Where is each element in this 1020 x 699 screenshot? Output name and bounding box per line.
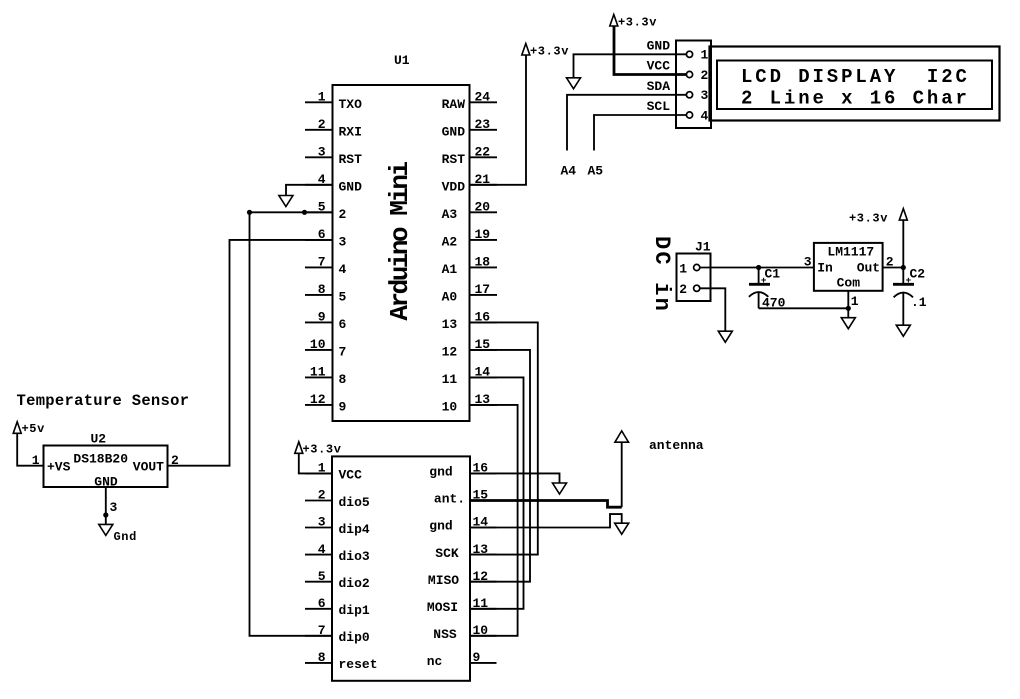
svg-text:8: 8 — [318, 650, 326, 665]
U1 pin 18 (A1) right stub — [442, 255, 497, 278]
svg-text:VDD: VDD — [442, 180, 466, 195]
IC U1 Arduino Mini body — [333, 53, 470, 421]
svg-text:RXI: RXI — [339, 125, 362, 140]
svg-text:12: 12 — [442, 345, 458, 360]
U1 pin 22 (RST) right stub — [442, 145, 497, 168]
svg-text:6: 6 — [318, 596, 326, 611]
svg-text:A3: A3 — [442, 207, 458, 222]
svg-text:dio2: dio2 — [339, 576, 370, 591]
svg-text:TXO: TXO — [339, 97, 363, 112]
U1 pin 24 (RAW) right stub — [442, 90, 497, 113]
svg-text:19: 19 — [475, 227, 491, 242]
svg-text:+3.3v: +3.3v — [849, 212, 888, 226]
wire +5v to U2 pin1 — [17, 433, 43, 465]
wire LM1117 Com to ground — [841, 291, 855, 329]
radio pin 8 (reset) left stub — [305, 650, 378, 672]
wire J1 pin2 to ground — [700, 288, 733, 342]
svg-text:nc: nc — [427, 654, 443, 669]
connector J1 body — [677, 240, 711, 301]
svg-text:SDA: SDA — [647, 79, 671, 94]
svg-text:12: 12 — [310, 392, 326, 407]
J1 pin 1 — [679, 261, 700, 276]
U1 pin 12 (9) left stub — [305, 392, 347, 415]
ground symbol Gnd under U2 — [99, 524, 137, 544]
svg-text:2: 2 — [318, 117, 326, 132]
wire LM1117 Out to +3.3v node — [883, 267, 904, 269]
svg-text:DS18B20: DS18B20 — [73, 451, 128, 466]
U1 pin 9 (6) left stub — [305, 310, 347, 333]
radio module body — [332, 456, 470, 680]
U1 pin 4 (GND) left stub — [305, 172, 362, 195]
radio pin 7 (dip0) left stub — [305, 623, 370, 645]
radio pin 5 (dio2) left stub — [305, 569, 370, 591]
svg-text:7: 7 — [318, 623, 326, 638]
svg-text:+3.3v: +3.3v — [303, 442, 342, 456]
radio pin 3 (dip4) left stub — [305, 515, 370, 537]
svg-text:RST: RST — [442, 152, 466, 167]
svg-text:C1: C1 — [765, 267, 781, 282]
wire U1 pin5(2) to radio dip0 — [250, 212, 333, 636]
radio pin 11 (MOSI) right stub — [427, 596, 497, 615]
wire C1 bottom to Com node — [759, 307, 849, 309]
U1 pin 11 (8) left stub — [305, 365, 347, 388]
wire radio SCK pin13 to U1 pin16 — [470, 322, 538, 554]
junction dot on U2 pin3 — [103, 512, 108, 517]
svg-text:5: 5 — [318, 569, 326, 584]
svg-text:18: 18 — [475, 255, 491, 270]
power +5v — [13, 422, 45, 436]
svg-text:+3.3v: +3.3v — [530, 45, 569, 59]
radio pin 9 (nc) right stub — [427, 650, 497, 669]
svg-text:5: 5 — [339, 290, 347, 305]
svg-text:A0: A0 — [442, 290, 458, 305]
radio pin 2 (dio5) left stub — [305, 488, 370, 510]
U1 pin 2 (RXI) left stub — [305, 117, 362, 140]
power +3.3v at radio VCC — [295, 442, 342, 457]
svg-text:dip4: dip4 — [339, 522, 370, 537]
connector pin 4 (SCL) — [647, 99, 709, 123]
svg-text:8: 8 — [318, 282, 326, 297]
svg-text:10: 10 — [310, 337, 326, 352]
U1 pin 21 (VDD) right stub — [442, 172, 497, 195]
svg-text:GND: GND — [442, 125, 466, 140]
wire SCL pin4 to A5 — [588, 115, 687, 178]
svg-text:A4: A4 — [561, 163, 577, 178]
U1 pin 17 (A0) right stub — [442, 282, 497, 305]
radio pin 15 (ant.) right stub — [434, 488, 497, 507]
svg-text:2: 2 — [318, 488, 326, 503]
wire radio MISO pin12 to U1 pin15 — [470, 350, 531, 582]
svg-text:2: 2 — [701, 68, 709, 83]
svg-text:VCC: VCC — [647, 59, 671, 74]
svg-text:2: 2 — [339, 207, 347, 222]
svg-text:3: 3 — [318, 145, 326, 160]
svg-text:dip1: dip1 — [339, 603, 370, 618]
wire +3.3v to radio VCC pin1 — [299, 453, 332, 473]
U1 pin 8 (5) left stub — [305, 282, 347, 305]
svg-text:SCK: SCK — [435, 546, 459, 561]
wire radio ant pin15 to antenna — [470, 442, 622, 507]
svg-text:DC in: DC in — [649, 236, 674, 313]
U1 pin 20 (A3) right stub — [442, 200, 497, 223]
svg-text:3: 3 — [339, 235, 347, 250]
svg-text:A1: A1 — [442, 262, 458, 277]
svg-text:LCD DISPLAY I2C: LCD DISPLAY I2C — [741, 66, 970, 88]
regulator LM1117 body — [814, 243, 883, 291]
U1 pin 19 (A2) right stub — [442, 227, 497, 250]
wire radio gnd pin14 to ground — [470, 514, 629, 534]
power +3.3v at regulator output — [849, 209, 907, 268]
svg-text:Arduino Mini: Arduino Mini — [385, 161, 415, 320]
svg-text:A2: A2 — [442, 235, 458, 250]
wire U1 VDD pin21 to +3.3v — [470, 55, 527, 185]
ground symbol under C2 — [896, 325, 910, 336]
svg-text:1: 1 — [32, 453, 40, 468]
antenna symbol — [615, 431, 704, 453]
svg-text:dio3: dio3 — [339, 549, 370, 564]
svg-text:dio5: dio5 — [339, 495, 370, 510]
svg-text:11: 11 — [310, 365, 326, 380]
U1 pin 16 (13) right stub — [442, 310, 497, 333]
svg-text:3: 3 — [701, 88, 709, 103]
svg-text:Temperature Sensor: Temperature Sensor — [17, 392, 190, 410]
svg-text:1: 1 — [851, 294, 859, 309]
svg-text:J1: J1 — [695, 240, 711, 255]
svg-text:ant.: ant. — [434, 492, 465, 507]
svg-text:+VS: +VS — [47, 460, 71, 475]
radio pin 16 (gnd) right stub — [429, 461, 496, 480]
junction dot at Out node — [901, 265, 906, 270]
svg-text:13: 13 — [442, 317, 458, 332]
connector body — [676, 41, 711, 129]
svg-text:+5v: +5v — [22, 422, 45, 436]
U1 pin 13 (10) right stub — [442, 392, 497, 415]
radio pin 4 (dio3) left stub — [305, 542, 370, 564]
wire radio NSS pin10 to U1 pin13 — [470, 405, 518, 636]
svg-text:3: 3 — [318, 515, 326, 530]
svg-text:MISO: MISO — [428, 573, 459, 588]
svg-text:22: 22 — [475, 145, 491, 160]
junction dot on pin5 wire near pin — [302, 210, 307, 215]
radio pin 12 (MISO) right stub — [428, 569, 497, 588]
svg-text:2: 2 — [679, 282, 687, 297]
U1 pin 7 (4) left stub — [305, 255, 347, 278]
svg-text:9: 9 — [318, 310, 326, 325]
svg-text:NSS: NSS — [433, 627, 457, 642]
LCD display inner box — [717, 61, 992, 110]
svg-text:1: 1 — [679, 261, 687, 276]
svg-text:1: 1 — [318, 90, 326, 105]
svg-text:7: 7 — [339, 345, 347, 360]
svg-text:LM1117: LM1117 — [827, 244, 874, 259]
U1 pin 14 (11) right stub — [442, 365, 497, 388]
capacitor C2 (polarized, .1) — [893, 267, 927, 326]
U1 pin 6 (3) left stub — [305, 227, 347, 250]
svg-text:dip0: dip0 — [339, 630, 370, 645]
wire GND pin1 to ground — [567, 54, 687, 89]
svg-text:3: 3 — [804, 255, 812, 270]
svg-text:antenna: antenna — [649, 438, 704, 453]
svg-text:VCC: VCC — [339, 468, 363, 483]
svg-text:23: 23 — [475, 117, 491, 132]
LCD display outer box — [710, 47, 1000, 121]
power +3.3v at LCD — [610, 15, 657, 30]
sensor U2 DS18B20 body — [44, 431, 168, 489]
svg-text:11: 11 — [442, 372, 458, 387]
U1 pin 1 (TXO) left stub — [305, 90, 362, 113]
wire U1 pin6(3) to sensor VOUT — [168, 240, 333, 466]
svg-text:4: 4 — [339, 262, 347, 277]
svg-text:2 Line x 16 Char: 2 Line x 16 Char — [741, 87, 970, 109]
svg-text:RAW: RAW — [442, 97, 466, 112]
svg-text:9: 9 — [473, 650, 481, 665]
svg-text:20: 20 — [475, 200, 491, 215]
svg-text:Out: Out — [857, 261, 880, 276]
wire VCC pin2 to +3.3v — [614, 26, 686, 75]
svg-text:In: In — [817, 261, 833, 276]
radio pin 1 (VCC) left stub — [305, 461, 362, 483]
junction dot at Com node — [846, 306, 851, 311]
svg-text:1: 1 — [701, 48, 709, 63]
svg-text:3: 3 — [110, 500, 118, 515]
svg-text:U2: U2 — [91, 431, 107, 446]
wire radio gnd pin16 to ground — [470, 473, 567, 494]
svg-text:GND: GND — [647, 39, 671, 54]
wire SDA pin3 to A4 — [561, 95, 687, 179]
svg-text:+: + — [906, 275, 912, 286]
U1 pin 3 (RST) left stub — [305, 145, 362, 168]
svg-text:+3.3v: +3.3v — [618, 15, 657, 29]
radio pin 10 (NSS) right stub — [433, 623, 496, 642]
svg-text:.1: .1 — [911, 295, 927, 310]
svg-text:VOUT: VOUT — [133, 460, 164, 475]
U1 pin 5 (2) left stub — [305, 200, 347, 223]
junction dot at C1/In node — [756, 265, 761, 270]
wire J1 pin1 to LM1117 In — [700, 267, 814, 269]
svg-text:Com: Com — [837, 276, 861, 291]
connector pin 1 (GND) — [647, 39, 709, 63]
power +3.3v at VDD — [522, 44, 569, 59]
svg-text:2: 2 — [171, 453, 179, 468]
connector pin 2 (VCC) — [647, 59, 709, 83]
svg-text:RST: RST — [339, 152, 363, 167]
svg-text:24: 24 — [475, 90, 491, 105]
svg-text:10: 10 — [442, 400, 458, 415]
svg-text:MOSI: MOSI — [427, 600, 458, 615]
svg-text:8: 8 — [339, 372, 347, 387]
svg-text:6: 6 — [339, 317, 347, 332]
wire radio MOSI pin11 to U1 pin14 — [470, 377, 524, 608]
svg-text:GND: GND — [339, 180, 363, 195]
svg-text:U1: U1 — [394, 53, 410, 68]
U1 pin 10 (7) left stub — [305, 337, 346, 360]
radio pin 14 (gnd) right stub — [429, 515, 496, 534]
U1 pin 15 (12) right stub — [442, 337, 497, 360]
svg-text:9: 9 — [339, 400, 347, 415]
svg-text:gnd: gnd — [429, 519, 452, 534]
ground symbol at U1 pin 4 GND — [279, 185, 333, 207]
radio pin 13 (SCK) right stub — [435, 542, 496, 561]
connector pin 3 (SDA) — [647, 79, 709, 103]
svg-text:+: + — [761, 275, 767, 286]
svg-text:4: 4 — [318, 542, 326, 557]
svg-text:A5: A5 — [588, 163, 604, 178]
svg-text:4: 4 — [701, 108, 709, 123]
U1 pin 23 (GND) right stub — [442, 117, 497, 140]
junction dot on pin5 wire — [247, 210, 252, 215]
svg-text:SCL: SCL — [647, 99, 671, 114]
svg-text:17: 17 — [475, 282, 491, 297]
svg-text:Gnd: Gnd — [114, 530, 137, 544]
svg-text:gnd: gnd — [429, 465, 452, 480]
svg-text:C2: C2 — [910, 267, 926, 282]
J1 pin 2 — [679, 282, 700, 297]
U2 pin 3 to ground — [106, 487, 118, 524]
capacitor C1 (polarized, 470) — [749, 267, 786, 311]
svg-text:reset: reset — [339, 657, 378, 672]
svg-text:7: 7 — [318, 255, 326, 270]
radio pin 6 (dip1) left stub — [305, 596, 370, 618]
